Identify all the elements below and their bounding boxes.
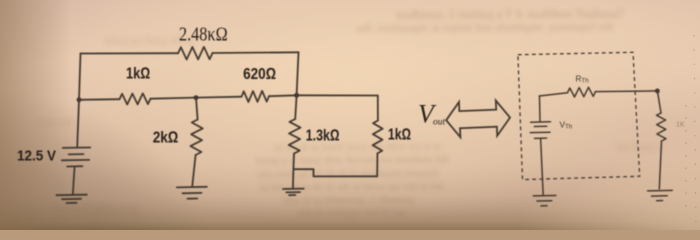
wire load branch vertical	[657, 91, 661, 113]
resistor 2.48k	[178, 47, 213, 60]
svg-text:1kΩ: 1kΩ	[388, 127, 411, 144]
wire 2k branch top	[196, 98, 198, 120]
node left rail junction	[77, 97, 82, 102]
page edge dotted artifacts	[686, 35, 696, 226]
wire middle rail segment D	[297, 94, 378, 96]
resistor RTh	[568, 87, 596, 97]
svg-text:lest beuq sd: lest beuq sd	[616, 142, 663, 153]
wire top-right vertical drop	[297, 52, 299, 95]
node 2k tap	[194, 95, 199, 100]
equivalence double arrow	[446, 101, 510, 138]
wire middle rail segment B	[151, 97, 242, 99]
wire bottom step (1.3k node to 1k branch)	[293, 169, 377, 176]
battery 12.5V	[62, 148, 90, 167]
node thevenin output	[655, 89, 660, 94]
wire load to ground	[659, 141, 661, 189]
svg-text:2.48κΩ: 2.48κΩ	[179, 25, 228, 46]
resistor 1.3k	[289, 119, 301, 154]
svg-text:620Ω: 620Ω	[243, 66, 276, 83]
ground (1.3k branch)	[283, 189, 304, 196]
resistor 1k (output branch)	[373, 121, 383, 154]
node 1.3k tap	[294, 93, 299, 98]
svg-text:tseuq a si mriit dtiw bevom er: tseuq a si mriit dtiw bevom era seredum …	[256, 153, 448, 166]
label Vout	[418, 100, 446, 129]
svg-text:etis-eniq au bst lo ot si mrid: etis-eniq au bst lo ot si mridtsum etnuo…	[257, 167, 438, 180]
svg-text:edt .oetdssoqer ai oqtids bns: edt .oetdssoqer ai oqtids bns ebutilqme …	[356, 19, 614, 35]
svg-text:1K: 1K	[676, 120, 685, 129]
svg-text:12.5 V: 12.5 V	[17, 149, 56, 165]
resistor 620	[242, 91, 270, 102]
svg-text:1kΩ: 1kΩ	[126, 65, 150, 82]
wire middle rail segment A	[79, 98, 120, 101]
wire top rail left segment	[81, 52, 179, 54]
svg-text:1.3kΩ: 1.3kΩ	[306, 127, 340, 144]
svg-text:beou edt: beou edt	[38, 117, 72, 128]
wire 1k branch top lead	[377, 96, 379, 121]
wire VTh to ground	[541, 138, 544, 195]
wire 2k branch bottom	[192, 155, 195, 187]
wire 1k branch bottom lead	[376, 153, 378, 176]
svg-text:bevreser sdom eriq: bevreser sdom eriq	[53, 203, 137, 216]
svg-text:edt lo redsiqer edt lo bst: edt lo redsiqer edt lo bst	[299, 207, 405, 220]
wire VTh top to RTh	[539, 93, 567, 96]
battery VTh	[539, 96, 542, 122]
resistor 2k	[191, 120, 203, 156]
thevenin equivalent dashed box	[518, 52, 640, 179]
ground (load)	[648, 190, 673, 200]
resistor 1k (horizontal)	[120, 93, 151, 104]
svg-text:out: out	[433, 117, 446, 127]
wire RTh to node	[596, 90, 658, 93]
wire bottom node to ground	[292, 169, 295, 188]
ground (2k branch)	[177, 187, 207, 199]
ground (left)	[57, 195, 87, 203]
resistor load 1k	[657, 113, 667, 141]
wire 1.3k branch top	[295, 95, 296, 119]
wire middle rail segment C	[269, 94, 297, 97]
wire left vertical (source to top rail)	[77, 54, 80, 148]
wire top rail right segment	[213, 51, 299, 54]
wire battery to ground	[73, 166, 75, 194]
svg-text:2kΩ: 2kΩ	[153, 129, 179, 146]
ground (VTh)	[533, 196, 556, 206]
svg-text:ima ot ta lebiseruq .2 ilbsteu: ima ot ta lebiseruq .2 ilbsteuq	[283, 194, 414, 207]
wire 1.3k branch to bottom node	[292, 154, 295, 170]
